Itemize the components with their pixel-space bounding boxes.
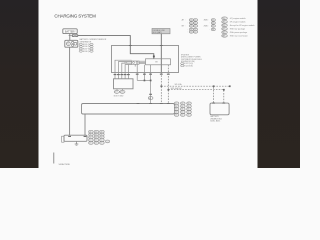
svg-text:B430, B431: B430, B431 xyxy=(210,121,220,123)
svg-text:15: 15 xyxy=(188,115,190,117)
wire nested L1 xyxy=(115,60,132,75)
svg-text:W/R 40A (VK): W/R 40A (VK) xyxy=(171,87,183,90)
svg-text:02: 02 xyxy=(95,131,97,133)
node battery tap xyxy=(69,35,73,37)
svg-text:CHARGING SYSTEM: CHARGING SYSTEM xyxy=(54,14,96,19)
IPDM E/R enclosure U1 xyxy=(112,46,179,73)
wire battery feed to IPDM xyxy=(78,36,154,59)
svg-text:60: 60 xyxy=(212,20,214,22)
connector table grid B xyxy=(89,130,110,144)
svg-text:04: 04 xyxy=(175,106,177,108)
svg-text:06: 06 xyxy=(188,106,190,108)
relay K1 generator relay xyxy=(146,59,171,65)
label grid B pin numbers xyxy=(90,131,103,144)
left letterbox bar xyxy=(0,0,39,168)
connector ticks flat box top xyxy=(137,103,170,105)
node J2 xyxy=(150,80,152,82)
svg-text:11: 11 xyxy=(95,140,97,142)
svg-text:11: 11 xyxy=(194,29,196,31)
svg-text:04: 04 xyxy=(90,134,92,136)
wire fuse drop L5 xyxy=(128,64,135,75)
right letterbox bar xyxy=(258,0,301,168)
svg-text:05: 05 xyxy=(95,134,97,136)
svg-text:10: 10 xyxy=(190,26,192,28)
wires into sensor box xyxy=(115,75,128,79)
svg-text:13: 13 xyxy=(175,115,177,117)
label grid A pin numbers xyxy=(175,103,189,117)
node bus1b xyxy=(213,85,215,87)
svg-text:60: 60 xyxy=(212,29,214,31)
svg-text:11: 11 xyxy=(194,26,196,28)
svg-text:13: 13 xyxy=(90,143,92,145)
legend group A xyxy=(182,19,189,34)
node junction at relay feed xyxy=(153,56,155,58)
registration mark xyxy=(53,153,55,164)
svg-text:10: 10 xyxy=(190,20,192,22)
wire nested L2 xyxy=(118,62,131,75)
label generator annotation xyxy=(80,38,107,53)
svg-text:03: 03 xyxy=(188,103,190,105)
svg-text:12: 12 xyxy=(101,140,103,142)
svg-text:11: 11 xyxy=(194,23,196,25)
svg-text:01: 01 xyxy=(175,103,177,105)
wire nested L3 xyxy=(122,63,132,75)
ground block (bottom) xyxy=(62,135,87,142)
svg-text:09: 09 xyxy=(188,109,190,111)
svg-text:06: 06 xyxy=(101,134,103,136)
fusible link F1 xyxy=(72,35,78,37)
svg-text:W/L 40A: W/L 40A xyxy=(175,83,183,86)
label IPDM annotation xyxy=(181,55,203,68)
svg-text:15: 15 xyxy=(101,143,103,145)
page background xyxy=(0,0,300,168)
harness junction box (flat) xyxy=(82,104,175,115)
label bus notes xyxy=(171,83,183,90)
connector E9 on relay output wire xyxy=(148,94,153,100)
generator G1 xyxy=(65,40,78,47)
connector ticks ground block xyxy=(68,135,86,137)
svg-text:E9: E9 xyxy=(149,98,151,100)
svg-text:11: 11 xyxy=(194,32,196,34)
wire fusible link drop xyxy=(160,34,162,73)
battery B1 xyxy=(63,29,77,34)
svg-text:03: 03 xyxy=(101,131,103,133)
wire dashed option bus row 2 xyxy=(167,65,169,104)
svg-text:60: 60 xyxy=(212,23,214,25)
wire generator to ground block xyxy=(69,47,71,135)
svg-text:07: 07 xyxy=(90,137,92,139)
svg-text:: VQ engine models: : VQ engine models xyxy=(229,18,246,20)
wire nested L4 xyxy=(125,65,132,75)
svg-text:07: 07 xyxy=(175,109,177,111)
svg-text:01: 01 xyxy=(90,131,92,133)
svg-text:08: 08 xyxy=(95,137,97,139)
connector table grid A xyxy=(174,102,191,117)
wire relay outputs xyxy=(144,65,150,104)
svg-text:14: 14 xyxy=(95,143,97,145)
svg-text:SKIA2749E: SKIA2749E xyxy=(59,163,71,166)
ground xyxy=(75,142,79,146)
svg-text:: With power package: : With power package xyxy=(229,31,247,34)
svg-text:MT :: MT : xyxy=(182,26,186,28)
svg-text:AT :: AT : xyxy=(182,19,186,22)
svg-text:05: 05 xyxy=(181,106,183,108)
svg-text:12: 12 xyxy=(188,112,190,114)
svg-text:BATTERY: BATTERY xyxy=(65,30,76,33)
svg-text:: VK engine models: : VK engine models xyxy=(229,22,245,24)
legend group B xyxy=(204,20,211,32)
svg-text:: Except for VK engine models: : Except for VK engine models xyxy=(229,24,254,27)
node J1 xyxy=(144,80,146,82)
svg-text:G: G xyxy=(67,42,69,46)
fuse F2 inside IPDM xyxy=(124,61,139,65)
svg-text:10: 10 xyxy=(90,140,92,142)
svg-text:10: 10 xyxy=(190,32,192,34)
svg-text:02: 02 xyxy=(181,103,183,105)
svg-text:60: 60 xyxy=(212,26,214,28)
svg-text:E43: E43 xyxy=(121,92,124,94)
svg-text:2WD :: 2WD : xyxy=(204,26,210,28)
connector ticks right box xyxy=(212,102,225,104)
svg-text:: With rear seat heater: : With rear seat heater xyxy=(229,35,248,38)
svg-text:E124 (VK): E124 (VK) xyxy=(184,65,193,67)
svg-text:BODY GND: BODY GND xyxy=(114,95,124,97)
svg-text:11: 11 xyxy=(194,20,196,22)
optional unit box (right) xyxy=(210,103,229,115)
node bus1 xyxy=(161,85,163,87)
svg-text:14: 14 xyxy=(181,115,183,117)
wire fuse to relay stubs xyxy=(139,61,146,63)
wire battery to generator xyxy=(69,34,71,41)
svg-text:BOX (BAT): BOX (BAT) xyxy=(153,31,162,34)
svg-text:09: 09 xyxy=(101,137,103,139)
connector ticks big box bottom xyxy=(114,73,170,75)
wire branch to bus xyxy=(136,65,138,81)
svg-text:E17: E17 xyxy=(115,92,118,94)
svg-text:10: 10 xyxy=(190,29,192,31)
wire dashed option bus row 1 xyxy=(160,73,162,104)
wire flat box to ground block xyxy=(84,114,86,135)
fusible link box (top) xyxy=(152,29,170,35)
svg-text:4WD :: 4WD : xyxy=(204,20,210,22)
svg-text:10: 10 xyxy=(175,112,177,114)
connector E17 E43 ovals under sensor xyxy=(114,89,125,98)
svg-text:10: 10 xyxy=(190,23,192,25)
svg-text:: With tow package: : With tow package xyxy=(229,28,245,31)
legend group C xyxy=(222,17,255,38)
svg-text:08: 08 xyxy=(181,109,183,111)
battery current sensor box xyxy=(114,79,134,89)
svg-text:11: 11 xyxy=(181,112,183,114)
connector ticks big box top xyxy=(129,45,163,47)
label right box xyxy=(210,115,221,123)
wire merge bar xyxy=(137,79,150,81)
